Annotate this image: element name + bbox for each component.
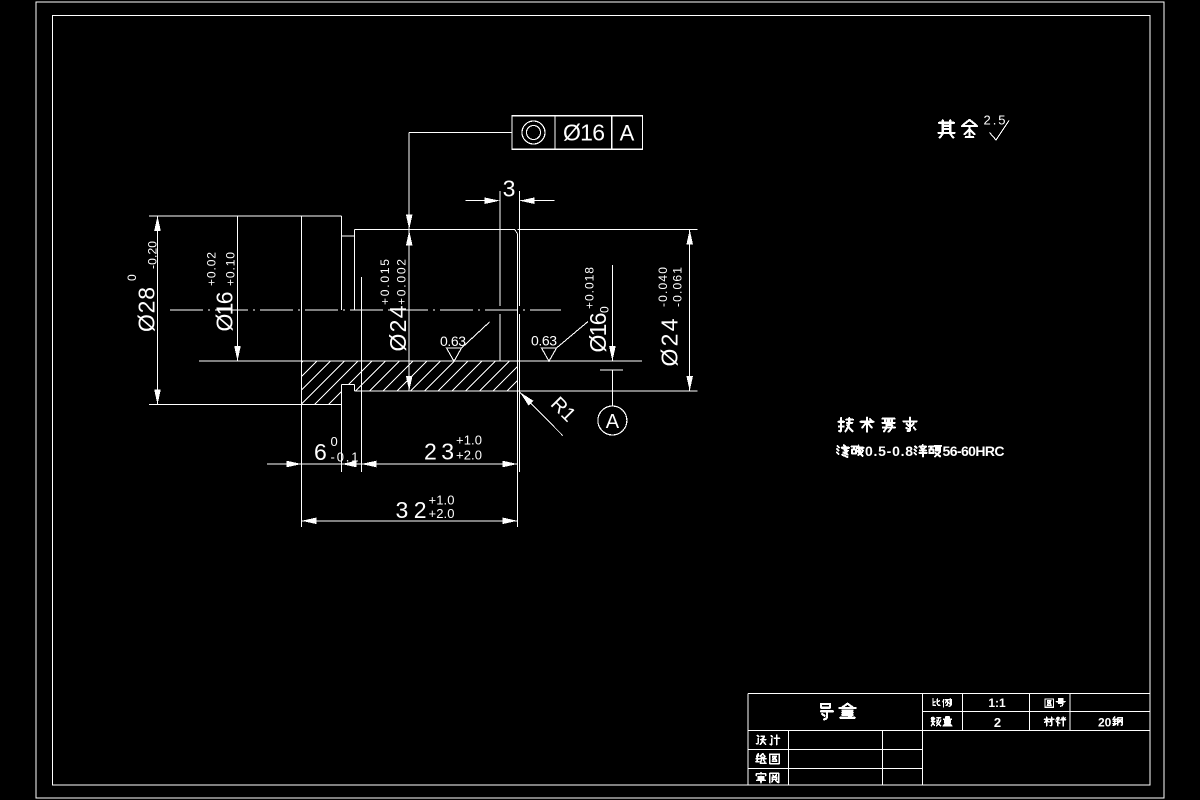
text: dim Ø24R sub (rotated) [671,267,685,307]
concentricity symbol [522,121,545,144]
svg-text:6: 6 [314,439,327,465]
arrowhead Ø28 top [154,216,161,231]
text: dim Ø24R main (rotated) [657,318,683,366]
R1 leader arrowhead [520,392,534,405]
text: R1 (rotated 45) [546,393,580,427]
ext line bottom for dim Ø24 right [518,390,698,392]
surface finish checkmark (其余) [990,121,1010,141]
dim line Ø16 right [611,265,613,361]
dim line Ø28 [157,216,159,405]
body right end face [517,234,519,391]
text: dim Ø16L sup (rotated) [205,252,219,286]
ext line dim 32 right [517,391,519,527]
text: label 审阅 [756,773,779,783]
svg-text:0.63: 0.63 [531,333,557,349]
svg-text:56-60HRC: 56-60HRC [943,443,1005,459]
svg-text:1:1: 1:1 [988,696,1006,710]
svg-text:0: 0 [331,434,338,449]
surface finish mark 0.63 (left, on bore) [447,322,490,361]
text: dim Ø24L main (rotated) [385,305,411,351]
svg-text:0.63: 0.63 [440,333,466,349]
datum A connector [611,370,613,406]
text: part name 导套 [821,704,856,720]
ext line top for dim Ø24 right [518,229,698,231]
text: note 其余 (rest) [939,120,978,138]
text: dim Ø16R sub (rotated) [598,306,612,313]
arrowhead Ø24+0.015 top [406,231,413,246]
arrowhead dim 3 right [520,197,535,204]
groove-to-body step (section) [354,385,356,392]
datum A base dash [600,369,623,371]
body bottom edge (section) [355,390,518,392]
arrowhead Ø16 left [234,346,241,361]
dim line Ø16 left [237,216,239,361]
svg-text:+0.018: +0.018 [583,267,597,309]
ext line right of part (below centerline) [519,314,521,472]
dim line 6 and 23 [267,463,518,465]
body top edge [355,229,515,231]
dim line Ø24+0.015 / leader from tolerance frame [408,132,410,391]
svg-text:-0.040: -0.040 [656,267,670,307]
svg-text:+0.02: +0.02 [205,252,219,286]
relief groove top edge [342,235,355,237]
flange right face / groove left edge projection [341,216,343,310]
bore step edge (section) [499,314,501,361]
arrowhead Ø24 right top [686,230,693,245]
text: label 图号 [1045,699,1065,708]
leader arrowhead onto Ø24 surface [406,215,413,230]
svg-text:+2.0: +2.0 [456,448,482,463]
dim line 3 left tail [465,200,498,202]
text: value 钢 [1113,717,1122,726]
ext line top for dim Ø28 [149,215,302,217]
svg-text:+0.002: +0.002 [395,259,409,305]
svg-text:A: A [620,121,635,146]
svg-text:Ø16: Ø16 [212,292,238,332]
flange left face [301,216,303,405]
svg-text:Ø24: Ø24 [657,318,683,366]
svg-text:Ø16: Ø16 [563,120,605,146]
svg-text:0: 0 [598,306,612,313]
ext line dim 3 left [499,191,501,306]
text: dim Ø16R main (rotated) [585,313,611,353]
arrowhead dim 23 left [361,461,376,468]
text: tech note 淬硬 [914,445,941,456]
ext line for dim Ø16 right [518,360,643,362]
arrowhead dim 32 right [503,518,518,525]
centerline [170,309,561,311]
chamfer at right end [515,230,518,235]
relief groove bottom edge (section) [342,384,355,386]
svg-text:+0.10: +0.10 [224,252,238,286]
title block grid [748,694,1150,785]
bore line (section) [302,360,518,362]
ext line bottom for dim Ø28 [149,404,302,406]
text: dim Ø16L sub (rotated) [224,252,238,286]
text: label 比例 [933,699,951,707]
dim line 3 right tail [521,200,555,202]
text: heading 技术要求 [838,418,916,432]
text: dim Ø28 main (rotated) [134,287,160,332]
text: label 材料 [1044,717,1065,726]
surface finish mark 0.63 (right, on bore ext) [542,322,589,362]
arrowhead Ø24 right bottom [686,376,693,391]
arrowhead Ø24+0.015 bottom [406,376,413,391]
body left face / groove right edge projection [354,230,356,311]
ext line dim 23 left [360,277,362,472]
flange right face lower (section) [341,385,343,405]
svg-text:0.5-0.8: 0.5-0.8 [865,443,913,459]
text: label 数量 [931,717,952,726]
leader line horizontal to tolerance frame [409,131,512,133]
dim line Ø24 right [689,230,691,392]
svg-text:20: 20 [1098,716,1112,730]
svg-text:Ø24: Ø24 [385,305,411,351]
text: dim Ø28 sub (rotated) [146,241,160,269]
flange top edge [302,215,342,217]
datum A circle [598,406,627,435]
svg-text:3: 3 [503,176,516,202]
text: label 设计 [756,735,779,744]
tolerance frame box [512,116,643,149]
svg-text:+1.0: +1.0 [456,433,482,448]
arrowhead dim 6 right (outside) [342,461,357,468]
section hatch lines [302,361,518,405]
flange bottom edge (section) [302,404,342,406]
ext line dim 3 right [519,191,521,306]
text: dim Ø24R sup (rotated) [656,267,670,307]
text: dim Ø24L sup (rotated) [378,259,392,305]
arrowhead dim 6 left (outside) [287,461,302,468]
arrowhead Ø16 right [609,346,616,361]
arrowhead dim 3 left [485,197,500,204]
arrowhead dim 23 right [503,461,518,468]
text: tech note 渗碳 [837,445,864,457]
dim line 32 [302,520,518,522]
svg-text:Ø28: Ø28 [134,287,160,332]
svg-text:-0.061: -0.061 [671,267,685,307]
ext line dim 6 right [341,405,343,473]
svg-text:+0.015: +0.015 [378,259,392,305]
text: dim Ø16L main (rotated) [212,292,238,332]
svg-text:-0.20: -0.20 [146,241,160,269]
ext line left (flange) for dims 6 and 32 [301,405,303,528]
text: label 绘图 [756,754,779,764]
svg-text:0: 0 [125,274,139,281]
arrowhead dim 32 left [302,518,317,525]
svg-text:2.5: 2.5 [984,113,1006,128]
text: dim Ø16R sup (rotated) [583,267,597,309]
svg-text:+2.0: +2.0 [429,506,455,521]
svg-text:A: A [606,411,620,433]
R1 leader line [520,392,563,435]
ext line for dim Ø16 bore (left) [199,360,302,362]
svg-text:2: 2 [994,715,1001,730]
svg-text:Ø16: Ø16 [585,313,611,353]
text: dim Ø24L sub (rotated) [395,259,409,305]
text: dim Ø28 sup (rotated) [125,274,139,281]
arrowhead Ø28 bottom [154,390,161,405]
